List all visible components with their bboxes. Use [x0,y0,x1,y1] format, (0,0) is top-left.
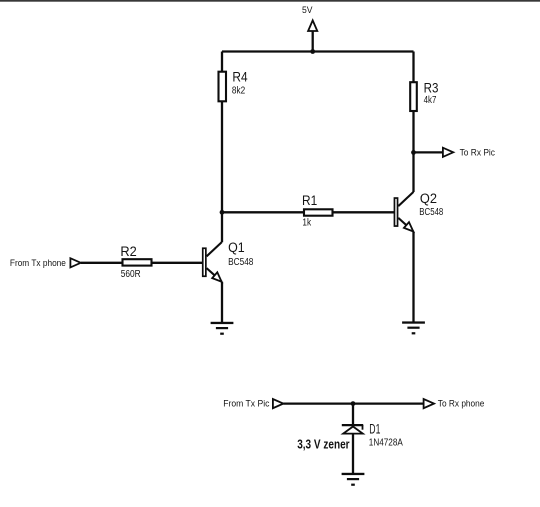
svg-text:D1: D1 [369,421,380,436]
svg-text:R3: R3 [424,81,439,96]
svg-text:3,3 V zener: 3,3 V zener [297,437,349,451]
svg-text:Q1: Q1 [228,240,245,255]
svg-text:R2: R2 [120,244,136,259]
svg-text:BC548: BC548 [419,207,443,218]
svg-text:From Tx Pic: From Tx Pic [223,398,269,409]
svg-text:R4: R4 [232,70,248,85]
svg-text:5V: 5V [302,5,313,16]
svg-text:R1: R1 [302,193,317,208]
svg-text:4k7: 4k7 [424,95,437,106]
svg-text:560R: 560R [121,269,141,280]
svg-text:BC548: BC548 [228,257,254,268]
svg-text:1k: 1k [302,218,312,229]
svg-text:1N4728A: 1N4728A [369,438,403,449]
svg-text:To Rx phone: To Rx phone [438,398,485,409]
svg-text:Q2: Q2 [420,191,437,206]
svg-text:To Rx Pic: To Rx Pic [460,147,496,158]
svg-text:8k2: 8k2 [232,86,246,97]
svg-text:From Tx phone: From Tx phone [10,258,66,269]
